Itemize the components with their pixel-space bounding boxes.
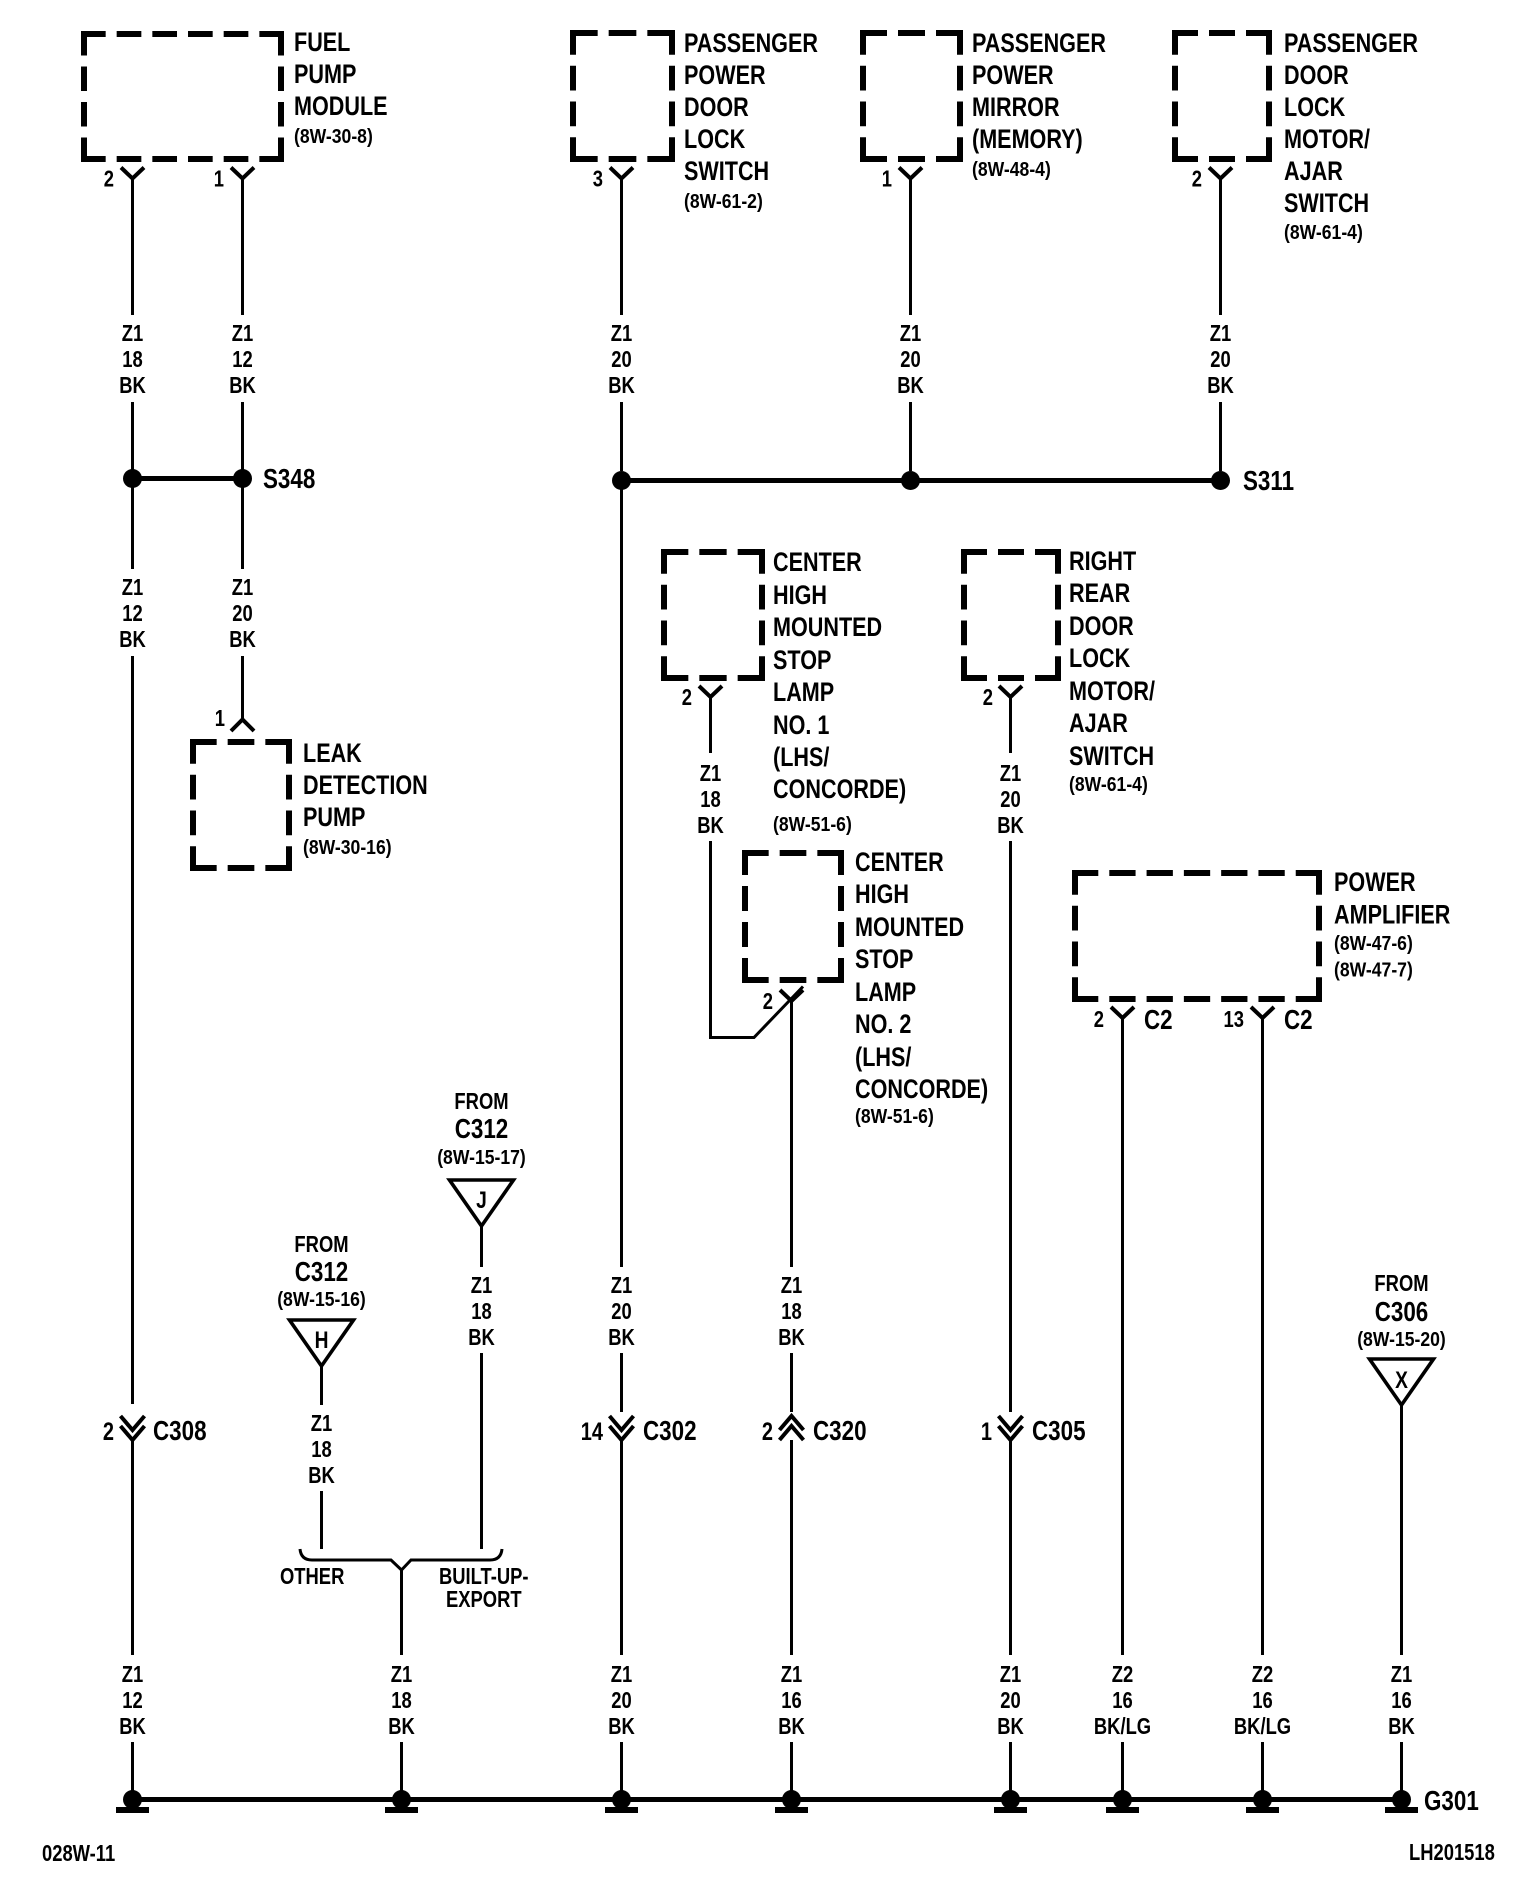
svg-text:Z1: Z1 [471,1273,492,1298]
svg-text:(8W-30-8): (8W-30-8) [294,125,373,147]
wire Z1 18 BK (fuel pump pin 2 to S348) [131,179,134,316]
svg-text:13: 13 [1224,1007,1244,1032]
wire [400,1742,403,1794]
wire [790,1353,793,1412]
wire Z1 12 BK (C308 to G301) [131,1440,134,1655]
svg-text:CENTER: CENTER [773,548,862,578]
svg-text:20: 20 [1000,787,1020,812]
svg-text:FROM: FROM [454,1089,508,1114]
svg-text:Z1: Z1 [1000,1662,1021,1687]
wire Z1 20 BK (door lock switch to S311) [620,179,623,316]
svg-text:DOOR: DOOR [684,93,749,123]
svg-text:MODULE: MODULE [294,92,388,122]
svg-text:RIGHT: RIGHT [1069,547,1136,577]
wire Z1 20 BK (mirror to S311) [909,179,912,316]
pin 2 of stop lamp no. 1 [699,686,722,697]
svg-text:2: 2 [103,1418,114,1446]
wire [480,1353,483,1549]
svg-text:POWER: POWER [1334,868,1416,898]
pin 2 of right rear door lock motor/ajar switch [999,686,1022,697]
svg-text:BK: BK [1388,1714,1415,1739]
svg-text:MOUNTED: MOUNTED [773,613,882,643]
svg-text:Z1: Z1 [900,321,921,346]
svg-text:BK: BK [897,373,924,398]
svg-text:S348: S348 [263,464,315,495]
svg-text:H: H [315,1326,329,1354]
svg-text:Z1: Z1 [611,321,632,346]
connector box: LEAK DETECTION PUMP [190,739,292,745]
svg-text:Z1: Z1 [611,1662,632,1687]
wire [1400,1742,1403,1794]
off-page connector H (from C312) [290,1320,354,1366]
svg-text:20: 20 [611,1299,631,1324]
svg-text:(8W-61-4): (8W-61-4) [1069,773,1148,795]
svg-text:AJAR: AJAR [1069,709,1128,739]
svg-text:2: 2 [682,685,692,710]
wire [1009,1742,1012,1794]
wire Z1 20 BK (right rear door lock to C305) [1009,697,1012,753]
wire [620,402,623,471]
svg-text:(8W-51-6): (8W-51-6) [855,1105,934,1127]
ground connection G301 (C305 wire) [1001,1790,1020,1809]
svg-text:2: 2 [1094,1007,1104,1032]
svg-text:16: 16 [781,1688,801,1713]
wire [241,656,244,720]
off-page connector J (from C312) [450,1180,514,1226]
wire Z1 18 BK (stop lamp no.2 to C320) [790,1001,793,1267]
svg-text:Z1: Z1 [122,575,143,600]
svg-text:18: 18 [391,1688,411,1713]
svg-text:18: 18 [700,787,720,812]
svg-text:STOP: STOP [773,646,831,676]
wire Z1 18 BK (connector H down) [320,1366,323,1405]
svg-text:BK: BK [697,813,724,838]
wire [131,656,134,1404]
svg-text:C312: C312 [455,1114,509,1145]
svg-text:G301: G301 [1424,1786,1479,1817]
ground connection G301 (amp pin13 wire) [1253,1790,1272,1809]
svg-text:PUMP: PUMP [294,60,356,90]
svg-text:C308: C308 [153,1416,207,1447]
svg-text:NO. 2: NO. 2 [855,1010,911,1040]
svg-text:DOOR: DOOR [1284,61,1349,91]
wire [1121,1742,1124,1794]
svg-text:SWITCH: SWITCH [1284,189,1369,219]
svg-text:20: 20 [611,347,631,372]
splice S311 [622,478,1221,483]
svg-text:12: 12 [122,1688,142,1713]
svg-text:C312: C312 [295,1257,349,1288]
svg-text:(LHS/: (LHS/ [855,1043,912,1073]
svg-text:BK: BK [468,1325,495,1350]
svg-text:C2: C2 [1144,1005,1173,1036]
svg-text:Z1: Z1 [311,1411,332,1436]
svg-text:LEAK: LEAK [303,739,362,769]
connector box: RIGHT REAR DOOR LOCK MOTOR/AJAR SWITCH [961,549,1061,555]
svg-text:028W-11: 028W-11 [42,1841,115,1866]
svg-text:MOUNTED: MOUNTED [855,913,964,943]
svg-text:BK: BK [229,373,256,398]
svg-text:Z1: Z1 [1000,761,1021,786]
svg-text:EXPORT: EXPORT [446,1587,522,1612]
svg-text:BK: BK [997,1714,1024,1739]
svg-text:MOTOR/: MOTOR/ [1284,125,1370,155]
svg-text:HIGH: HIGH [773,581,827,611]
connector C308 [121,1416,145,1430]
wire Z1 16 BK (C320 to G301) [790,1440,793,1655]
svg-text:PASSENGER: PASSENGER [1284,29,1418,59]
svg-text:Z1: Z1 [391,1662,412,1687]
svg-text:2: 2 [983,685,993,710]
wire [320,1491,323,1549]
svg-text:PASSENGER: PASSENGER [972,29,1106,59]
svg-text:LOCK: LOCK [1069,644,1130,674]
svg-text:2: 2 [1192,167,1202,192]
svg-text:BK: BK [119,373,146,398]
svg-text:BK: BK [119,1714,146,1739]
svg-text:2: 2 [763,989,773,1014]
svg-text:BK: BK [119,627,146,652]
ground connection G301 (C320 wire) [782,1790,801,1809]
svg-text:(8W-15-20): (8W-15-20) [1357,1328,1446,1350]
svg-text:Z1: Z1 [781,1662,802,1687]
svg-text:Z1: Z1 [122,321,143,346]
svg-text:C305: C305 [1032,1416,1086,1447]
svg-text:Z1: Z1 [122,1662,143,1687]
svg-text:MIRROR: MIRROR [972,93,1060,123]
svg-text:STOP: STOP [855,945,913,975]
pin 13 (C2) of power amplifier [1251,1007,1274,1018]
svg-text:CENTER: CENTER [855,848,944,878]
wire elbow joining stop lamp no.2 pin [711,987,804,1038]
svg-text:SWITCH: SWITCH [1069,742,1154,772]
wire [131,1742,134,1794]
svg-text:REAR: REAR [1069,579,1130,609]
connector box: PASSENGER POWER MIRROR (MEMORY) [860,30,963,36]
ground connection G301 (export brace wire) [392,1790,411,1809]
svg-text:BK: BK [308,1463,335,1488]
pin 1 of fuel pump module [231,168,254,179]
wire [1009,841,1012,1412]
svg-text:(8W-15-17): (8W-15-17) [437,1146,526,1168]
wire Z1 20 BK (door lock motor to S311) [1219,179,1222,316]
wire Z1 18 BK (stop lamp no.1 down) [709,697,712,753]
svg-text:DOOR: DOOR [1069,612,1134,642]
svg-text:FUEL: FUEL [294,28,350,58]
wire [620,1742,623,1794]
wire Z2 16 BK/LG (power amp pin 13 to G301) [1261,1018,1264,1655]
wire [1261,1742,1264,1794]
svg-text:Z1: Z1 [232,575,253,600]
wire [620,1353,623,1412]
wire [790,1742,793,1794]
svg-text:Z1: Z1 [1391,1662,1412,1687]
pin 3 of passenger power door lock switch [610,168,633,179]
wire Z1 20 BK (C302 to G301) [620,1440,623,1655]
pin 1 of passenger power mirror [899,168,922,179]
svg-text:C2: C2 [1284,1005,1313,1036]
wire Z1 18 BK (brace to G301) [400,1570,403,1655]
connector box: FUEL PUMP MODULE [81,31,284,37]
svg-text:LH201518: LH201518 [1409,1840,1495,1865]
svg-text:X: X [1395,1366,1408,1394]
svg-text:PASSENGER: PASSENGER [684,29,818,59]
wire [909,402,912,471]
svg-text:NO. 1: NO. 1 [773,711,829,741]
svg-text:Z1: Z1 [781,1273,802,1298]
wire [709,841,712,1039]
svg-text:3: 3 [593,167,603,192]
connector C305 [999,1416,1023,1430]
pin 2 (C2) of power amplifier [1111,1007,1134,1018]
pin 2 of stop lamp no. 2 [780,990,803,1001]
svg-text:20: 20 [611,1688,631,1713]
svg-text:FROM: FROM [294,1232,348,1257]
wire Z1 20 BK (S311 to C302) [620,489,623,1267]
pin 1 of leak detection pump [231,720,254,732]
svg-text:(MEMORY): (MEMORY) [972,125,1083,155]
svg-text:BK: BK [608,1714,635,1739]
svg-text:18: 18 [781,1299,801,1324]
wire Z1 16 BK (connector X to G301) [1400,1405,1403,1655]
svg-text:BK: BK [229,627,256,652]
svg-text:LOCK: LOCK [1284,93,1345,123]
svg-text:Z2: Z2 [1112,1662,1133,1687]
wire Z2 16 BK/LG (power amp pin 2 to G301) [1121,1018,1124,1655]
svg-text:AMPLIFIER: AMPLIFIER [1334,900,1451,930]
svg-text:(8W-47-6): (8W-47-6) [1334,932,1413,954]
pin 2 of passenger door lock motor/ajar switch [1209,168,1232,179]
svg-text:20: 20 [1000,1688,1020,1713]
splice S348 [133,476,243,481]
wire Z1 18 BK (connector J down) [480,1226,483,1267]
svg-text:20: 20 [900,347,920,372]
svg-text:(8W-47-7): (8W-47-7) [1334,958,1413,980]
brace joining OTHER and BUILT-UP-EXPORT wires [300,1549,502,1570]
connector box: CENTER HIGH MOUNTED STOP LAMP NO. 2 [742,850,844,856]
svg-text:POWER: POWER [972,61,1054,91]
svg-text:12: 12 [232,347,252,372]
wire Z1 12 BK (fuel pump pin 1 to S348) [241,179,244,316]
wire Z1 12 BK (S348 to C308) [131,487,134,569]
wire [241,402,244,470]
svg-text:BK: BK [1207,373,1234,398]
svg-text:CONCORDE): CONCORDE) [773,775,906,805]
svg-text:LAMP: LAMP [773,678,834,708]
svg-text:BK: BK [608,1325,635,1350]
svg-text:OTHER: OTHER [280,1564,344,1589]
pin 2 of fuel pump module [121,168,144,179]
off-page connector X (from C306) [1370,1359,1434,1405]
svg-text:1: 1 [214,167,224,192]
svg-text:POWER: POWER [684,61,766,91]
svg-text:DETECTION: DETECTION [303,771,428,801]
svg-text:(8W-30-16): (8W-30-16) [303,836,392,858]
svg-text:AJAR: AJAR [1284,157,1343,187]
svg-text:20: 20 [232,601,252,626]
connector C320 [780,1416,804,1430]
svg-text:16: 16 [1252,1688,1272,1713]
svg-text:BUILT-UP-: BUILT-UP- [439,1564,529,1589]
ground connection G301 (amp pin2 wire) [1113,1790,1132,1809]
svg-text:FROM: FROM [1374,1271,1428,1296]
svg-text:Z1: Z1 [232,321,253,346]
wire [131,402,134,470]
svg-text:1: 1 [882,167,892,192]
svg-text:2: 2 [762,1418,773,1446]
svg-text:S311: S311 [1243,466,1294,497]
svg-text:BK: BK [778,1714,805,1739]
connector C302 [610,1416,634,1430]
svg-text:1: 1 [981,1418,992,1446]
svg-text:J: J [476,1186,487,1214]
svg-text:18: 18 [122,347,142,372]
svg-text:C320: C320 [813,1416,867,1447]
svg-text:BK/LG: BK/LG [1234,1714,1291,1739]
svg-text:LAMP: LAMP [855,978,916,1008]
svg-text:16: 16 [1391,1688,1411,1713]
svg-text:18: 18 [311,1437,331,1462]
svg-text:BK: BK [608,373,635,398]
svg-text:BK/LG: BK/LG [1094,1714,1151,1739]
svg-text:C306: C306 [1375,1297,1429,1328]
ground connection G301 (C302 wire) [612,1790,631,1809]
svg-text:20: 20 [1210,347,1230,372]
svg-text:HIGH: HIGH [855,880,909,910]
svg-text:SWITCH: SWITCH [684,157,769,187]
wire Z1 20 BK (C305 to G301) [1009,1440,1012,1655]
connector box: PASSENGER DOOR LOCK MOTOR/AJAR SWITCH [1172,30,1272,36]
ground bus G301 [133,1797,1402,1802]
svg-text:PUMP: PUMP [303,803,365,833]
wire [1219,402,1222,471]
svg-text:BK: BK [778,1325,805,1350]
svg-text:(8W-61-4): (8W-61-4) [1284,221,1363,243]
connector box: POWER AMPLIFIER [1072,870,1322,876]
svg-text:(8W-61-2): (8W-61-2) [684,190,763,212]
svg-text:2: 2 [104,167,114,192]
connector box: CENTER HIGH MOUNTED STOP LAMP NO. 1 [661,549,765,555]
svg-text:LOCK: LOCK [684,125,745,155]
svg-text:BK: BK [388,1714,415,1739]
svg-text:BK: BK [997,813,1024,838]
svg-text:Z1: Z1 [1210,321,1231,346]
svg-text:C302: C302 [643,1416,697,1447]
svg-text:CONCORDE): CONCORDE) [855,1075,988,1105]
svg-text:14: 14 [581,1418,604,1446]
svg-text:(8W-51-6): (8W-51-6) [773,813,852,835]
svg-text:Z1: Z1 [611,1273,632,1298]
svg-text:12: 12 [122,601,142,626]
connector box: PASSENGER POWER DOOR LOCK SWITCH [570,30,675,36]
wire Z1 20 BK (S348 to leak detection pump) [241,487,244,569]
svg-text:Z1: Z1 [700,761,721,786]
svg-text:1: 1 [215,706,225,731]
svg-text:MOTOR/: MOTOR/ [1069,677,1155,707]
ground connection G301 (connector X wire) [1392,1790,1411,1809]
svg-text:16: 16 [1112,1688,1132,1713]
svg-text:18: 18 [471,1299,491,1324]
svg-text:(8W-48-4): (8W-48-4) [972,158,1051,180]
svg-text:(8W-15-16): (8W-15-16) [277,1288,366,1310]
svg-text:Z2: Z2 [1252,1662,1273,1687]
ground connection G301 (fuel pump wire) [123,1790,142,1809]
svg-text:(LHS/: (LHS/ [773,743,830,773]
